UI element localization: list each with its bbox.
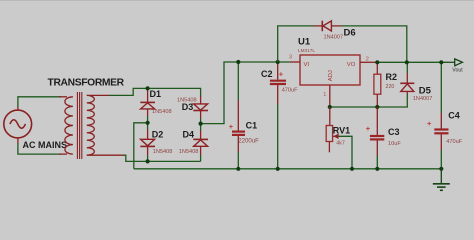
svg-text:470uF: 470uF bbox=[446, 139, 462, 145]
secondary pin top bbox=[87, 94, 110, 96]
svg-text:4k7: 4k7 bbox=[336, 141, 345, 147]
secondary pin bottom bbox=[87, 154, 124, 156]
svg-text:1N4007: 1N4007 bbox=[413, 96, 433, 102]
svg-text:1N4007: 1N4007 bbox=[324, 35, 344, 41]
svg-text:+: + bbox=[229, 122, 234, 131]
pin 3 VI stub bbox=[290, 61, 300, 63]
node dot D5/D6 on VO bbox=[405, 60, 409, 64]
svg-text:RV1: RV1 bbox=[333, 125, 350, 135]
resistor R2 bbox=[374, 62, 381, 107]
node dot D1-D2 midpoint bbox=[146, 121, 150, 125]
node dot D3-D4 midpoint bbox=[199, 122, 203, 126]
svg-text:2200uF: 2200uF bbox=[238, 137, 259, 144]
node dot C1 bottom bbox=[236, 167, 240, 171]
svg-text:D2: D2 bbox=[152, 130, 164, 140]
diode D4 bbox=[193, 130, 208, 155]
node dot C3 bottom bbox=[375, 167, 379, 171]
svg-text:LM317L: LM317L bbox=[298, 48, 315, 53]
capacitor C1 bbox=[232, 62, 245, 169]
svg-text:1N5408: 1N5408 bbox=[179, 149, 199, 155]
diode D3 bbox=[193, 96, 208, 118]
node dot R2 top bbox=[375, 60, 379, 64]
svg-text:1N5408: 1N5408 bbox=[153, 149, 173, 155]
secondary winding bbox=[87, 95, 95, 155]
RV1 wiper arrow bbox=[333, 134, 338, 139]
wire mid node to D2 anode bbox=[147, 123, 149, 130]
node dot C4 bottom / ground bbox=[439, 167, 443, 171]
node dot C1 top bbox=[236, 60, 240, 64]
wire VO node to D5 cathode bbox=[406, 62, 408, 73]
wire RV1 wiper to ground rail bbox=[339, 136, 353, 169]
primary pin top bbox=[59, 96, 67, 98]
diode D6 protection bbox=[278, 26, 314, 62]
node dot C2 top bbox=[276, 60, 280, 64]
svg-text:220: 220 bbox=[386, 84, 395, 90]
svg-text:2: 2 bbox=[366, 57, 369, 63]
svg-text:D6: D6 bbox=[344, 27, 356, 38]
node dot C2 bottom bbox=[276, 167, 280, 171]
wire D2 cathode to AC2 rail bbox=[147, 155, 149, 161]
pin 1 ADJ stub bbox=[329, 85, 331, 107]
svg-text:10uF: 10uF bbox=[388, 141, 401, 147]
primary pin bottom bbox=[59, 153, 67, 155]
wire AC bottom bbox=[18, 143, 61, 154]
ADJ net wire bbox=[330, 94, 408, 107]
svg-text:C4: C4 bbox=[448, 111, 460, 121]
node dot C4 top bbox=[439, 60, 443, 64]
svg-text:+: + bbox=[427, 119, 432, 128]
diode D1 bbox=[140, 89, 155, 116]
svg-text:R2: R2 bbox=[386, 72, 398, 82]
svg-text:U1: U1 bbox=[298, 37, 311, 48]
ground rail wire bbox=[134, 168, 442, 170]
wire mid node to D4 cathode bbox=[200, 124, 202, 131]
wire secondary top to bridge rail bbox=[109, 88, 201, 96]
svg-text:3: 3 bbox=[289, 54, 292, 60]
svg-text:C2: C2 bbox=[261, 69, 273, 79]
pin 2 VO stub bbox=[360, 61, 376, 63]
svg-text:1: 1 bbox=[323, 92, 326, 98]
svg-text:470uF: 470uF bbox=[282, 88, 298, 94]
core bbox=[76, 92, 78, 159]
svg-text:D1: D1 bbox=[150, 89, 162, 99]
svg-text:+: + bbox=[366, 124, 371, 133]
wire bridge mid-right to V+ riser bbox=[201, 62, 290, 124]
wire secondary bottom to AC2 rail bbox=[124, 155, 201, 161]
wire D3 cathode to mid node bbox=[200, 118, 202, 124]
diode D2 bbox=[140, 129, 155, 155]
svg-text:1N5408: 1N5408 bbox=[177, 98, 197, 104]
capacitor C2 bbox=[270, 62, 286, 169]
node dot bridge top (D1) bbox=[146, 86, 150, 90]
node dot R2 bottom / C3 top bbox=[375, 105, 379, 109]
wire bridge mid-left to ground rail bbox=[134, 123, 148, 169]
capacitor C3 bbox=[370, 107, 384, 169]
svg-text:VI: VI bbox=[304, 62, 310, 68]
node dot ADJ junction bbox=[328, 105, 332, 109]
primary winding bbox=[65, 97, 73, 154]
svg-text:+: + bbox=[279, 70, 284, 79]
svg-text:VO: VO bbox=[347, 62, 356, 68]
wire D1 anode to mid node bbox=[147, 116, 149, 123]
node dot D2 bottom bbox=[146, 159, 150, 163]
VO output wire bbox=[376, 61, 455, 63]
svg-text:D5: D5 bbox=[419, 85, 432, 96]
node dot RV1 wiper to ground bbox=[350, 167, 354, 171]
svg-text:TRANSFORMER: TRANSFORMER bbox=[48, 78, 125, 89]
svg-text:1N5408: 1N5408 bbox=[152, 109, 172, 115]
wire D4 anode to AC2 rail bbox=[200, 155, 202, 161]
svg-text:AC MAINS: AC MAINS bbox=[23, 140, 68, 150]
ground symbol bbox=[433, 169, 450, 191]
potentiometer RV1 bbox=[326, 107, 339, 152]
svg-text:D3: D3 bbox=[182, 102, 194, 112]
Vout terminal bbox=[455, 59, 463, 66]
svg-text:C1: C1 bbox=[246, 121, 258, 131]
wire AC top bbox=[18, 97, 61, 107]
transformer TR1 bbox=[59, 92, 124, 159]
svg-text:C3: C3 bbox=[388, 127, 400, 137]
svg-text:D4: D4 bbox=[183, 130, 195, 140]
svg-text:ADJ: ADJ bbox=[328, 70, 334, 81]
svg-text:Vout: Vout bbox=[452, 68, 463, 74]
AC source V1 bbox=[4, 107, 32, 144]
capacitor C4 bbox=[434, 62, 448, 169]
